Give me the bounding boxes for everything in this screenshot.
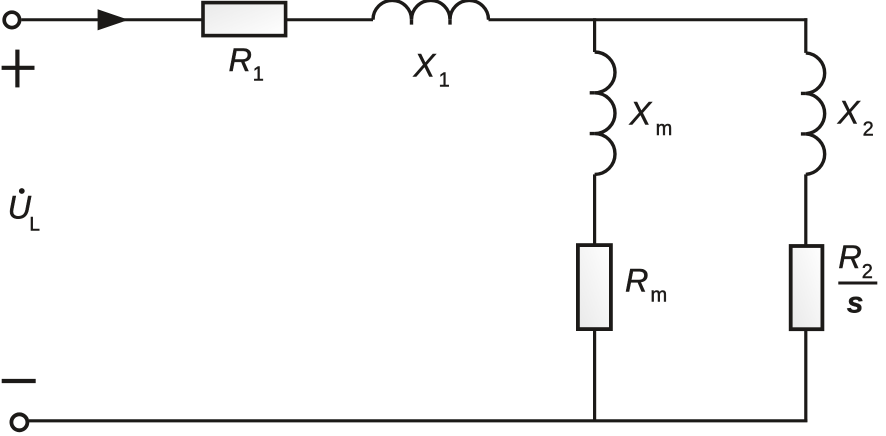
resistor Rm xyxy=(578,245,611,329)
svg-text:X: X xyxy=(413,48,437,84)
terminal bottom-left xyxy=(11,414,27,430)
svg-text:1: 1 xyxy=(253,64,264,86)
svg-text:s: s xyxy=(847,287,864,320)
wire Xm to Rm xyxy=(593,174,596,245)
resistor R2/s xyxy=(791,246,823,329)
svg-text:R: R xyxy=(625,263,648,299)
wire R2/s to bottom rail xyxy=(804,329,807,422)
minus sign xyxy=(2,379,36,383)
wire bottom rail xyxy=(29,419,807,422)
wire drop to X2 xyxy=(804,18,807,53)
svg-text:m: m xyxy=(656,118,673,140)
svg-text:R: R xyxy=(838,239,861,275)
inductor Xm xyxy=(590,52,615,174)
label X1 xyxy=(413,48,450,92)
wire Rm to bottom rail xyxy=(593,329,596,422)
wire top rail right segment xyxy=(489,18,808,21)
svg-text:m: m xyxy=(651,285,668,307)
current arrow xyxy=(98,9,129,30)
resistor R1 xyxy=(203,3,286,36)
terminal top-left xyxy=(4,12,19,27)
wire top rail left segment xyxy=(21,18,203,21)
wire between R1 and X1 xyxy=(286,18,373,21)
svg-text:X: X xyxy=(837,95,861,131)
svg-text:U: U xyxy=(8,190,32,226)
label R1 xyxy=(229,42,264,86)
svg-text:R: R xyxy=(229,42,252,78)
wire X2 to R2/s xyxy=(804,174,807,246)
label Xm xyxy=(629,96,673,140)
svg-text:1: 1 xyxy=(439,70,450,92)
svg-text:X: X xyxy=(629,96,653,132)
label X2 xyxy=(837,95,874,141)
wire junction drop to Xm xyxy=(593,18,596,52)
label R2/s xyxy=(838,239,877,320)
inductor X1 xyxy=(373,0,489,24)
plus sign xyxy=(2,50,35,88)
svg-text:2: 2 xyxy=(862,261,873,283)
svg-text:L: L xyxy=(29,215,40,236)
label Rm xyxy=(625,263,667,307)
inductor X2 xyxy=(801,53,825,174)
label UL xyxy=(8,188,40,236)
svg-text:2: 2 xyxy=(863,118,874,140)
